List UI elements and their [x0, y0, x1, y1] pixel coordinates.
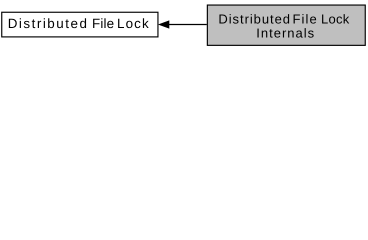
- node: Distributed File Lock Internals (right, gray box): [207, 5, 365, 45]
- svg-text:Lock: Lock: [117, 16, 149, 31]
- svg-text:Distributed: Distributed: [218, 11, 290, 26]
- svg-text:File: File: [293, 11, 317, 26]
- node: Distributed File Lock (left, white box): [2, 12, 158, 37]
- svg-text:Lock: Lock: [321, 11, 350, 26]
- svg-text:Distributed: Distributed: [8, 16, 87, 31]
- background: [0, 0, 368, 52]
- edge arrow from right node to left node: [159, 21, 207, 28]
- svg-text:File: File: [92, 16, 114, 31]
- svg-text:Internals: Internals: [256, 25, 314, 40]
